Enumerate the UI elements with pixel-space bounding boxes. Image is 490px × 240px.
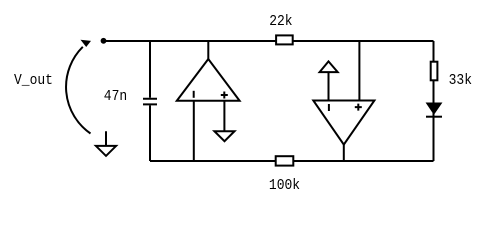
- wire bottom horizontal: [150, 160, 434, 162]
- comparator U2 minus label: [328, 104, 330, 111]
- svg-text:100k: 100k: [269, 177, 300, 194]
- resistor R2 100k: [276, 156, 294, 165]
- V_out arrowhead: [81, 40, 92, 47]
- svg-text:22k: 22k: [269, 13, 292, 30]
- supply arrow above comparator: [320, 61, 338, 72]
- ground op-amp: [214, 131, 234, 141]
- V_out arrow curve: [66, 47, 90, 134]
- svg-text:33k: 33k: [449, 72, 472, 89]
- wire comparator inverting lead: [328, 72, 330, 100]
- resistor R3 33k: [431, 62, 438, 81]
- comparator U2 triangle: [313, 101, 374, 145]
- wire capacitor top lead: [149, 41, 151, 98]
- svg-text:V_out: V_out: [14, 72, 53, 89]
- capacitor C1 plates 47n: [143, 99, 157, 105]
- node output dot: [101, 38, 107, 44]
- op-amp U1 plus label: [221, 92, 228, 99]
- wire op-amp output lead: [207, 41, 209, 59]
- wire comparator output lead: [343, 145, 345, 161]
- wire op-amp inverting input lead: [193, 101, 195, 161]
- op-amp U1 triangle: [177, 59, 240, 101]
- diode D1 cathode bar: [426, 116, 442, 118]
- resistor R1 22k: [276, 35, 293, 44]
- diode D1: [427, 103, 442, 114]
- comparator U2 plus label: [355, 104, 362, 111]
- ground V_out reference: [96, 131, 116, 156]
- svg-text:47n: 47n: [104, 88, 127, 105]
- op-amp U1 minus label: [193, 91, 195, 98]
- wire capacitor bottom lead: [149, 105, 151, 161]
- wire op-amp noninverting input lead: [223, 101, 225, 131]
- wire right vertical: [433, 41, 435, 161]
- wire comparator noninverting lead: [358, 41, 360, 101]
- wire top horizontal: [104, 40, 434, 42]
